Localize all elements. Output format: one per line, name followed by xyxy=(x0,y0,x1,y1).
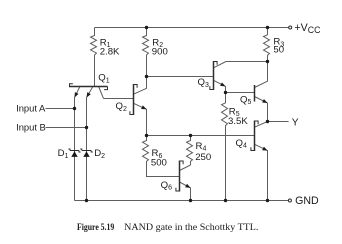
svg-text:Input A: Input A xyxy=(16,103,46,114)
transistor Q4 base bar xyxy=(254,121,256,152)
svg-text:D1: D1 xyxy=(58,148,69,160)
junction dot input B xyxy=(85,126,88,129)
svg-text:R4: R4 xyxy=(196,141,207,153)
transistor Q1 emitter 2 xyxy=(87,87,93,98)
diode D2 anode triangle xyxy=(83,151,89,157)
junction dot Q6 emitter ground xyxy=(189,199,192,202)
transistor Q3 Schottky hook top xyxy=(214,62,218,65)
arrow Q6 emitter xyxy=(185,184,190,188)
svg-text:Y: Y xyxy=(292,117,299,128)
transistor Q5 base bar xyxy=(254,85,256,102)
junction dot R5 ground xyxy=(224,199,227,202)
terminal circle GND xyxy=(288,199,291,202)
svg-text:3.5K: 3.5K xyxy=(228,116,248,127)
wire Q3 collector to R3 node xyxy=(226,61,268,63)
terminal circle +VCC xyxy=(289,26,292,29)
svg-text:D2: D2 xyxy=(94,148,105,160)
wire GND bottom rail xyxy=(75,200,289,202)
transistor Q6 Schottky hook bottom xyxy=(176,188,180,191)
transistor Q6 collector xyxy=(180,165,191,171)
svg-text:Q4: Q4 xyxy=(236,138,247,150)
resistor R5 xyxy=(222,93,228,201)
transistor Q6 emitter xyxy=(180,182,191,201)
svg-text:Q2: Q2 xyxy=(116,101,127,113)
diode D1 Schottky cathode bar xyxy=(68,149,80,152)
svg-text:500: 500 xyxy=(151,158,167,169)
resistor R6 xyxy=(143,136,180,177)
transistor Q2 Schottky hook bottom xyxy=(130,111,134,114)
svg-text:2.8K: 2.8K xyxy=(100,47,120,58)
junction dot R3 top rail xyxy=(266,26,269,29)
transistor Q2 collector xyxy=(134,77,147,95)
arrow Q2 emitter xyxy=(141,105,146,109)
svg-text:Q1: Q1 xyxy=(98,73,109,85)
transistor Q2 base bar xyxy=(133,84,135,115)
arrow Q3 emitter xyxy=(220,82,225,86)
wire input vertical 1 to D1 and ground xyxy=(74,98,76,201)
junction dot Q2 collector node xyxy=(145,75,148,78)
transistor Q3 Schottky hook bottom xyxy=(210,86,214,89)
junction dot R2 top rail xyxy=(145,26,148,29)
transistor Q1 Schottky hook left xyxy=(70,84,73,87)
wire input A xyxy=(46,108,75,110)
junction dot D2 ground xyxy=(85,199,88,202)
transistor Q1 emitter 1 xyxy=(75,87,80,98)
svg-text:Q5: Q5 xyxy=(240,94,251,106)
transistor Q5 emitter xyxy=(255,97,268,122)
junction dot input A xyxy=(73,107,76,110)
junction dot Q2 emitter node xyxy=(145,134,148,137)
svg-text:+VCC: +VCC xyxy=(295,22,322,35)
transistor Q4 collector xyxy=(255,122,268,128)
wire Q2 emitter node to Q4 base xyxy=(147,135,255,137)
wire Q3 emitter node to Q5 base xyxy=(226,92,255,94)
transistor Q4 Schottky hook bottom xyxy=(251,147,255,150)
resistor R2 xyxy=(143,28,149,77)
resistor R3 xyxy=(264,28,270,62)
junction dot Q3 emitter node xyxy=(224,91,227,94)
transistor Q1 base bar xyxy=(69,86,108,88)
junction dot output Y node xyxy=(266,120,269,123)
svg-text:50: 50 xyxy=(273,45,284,56)
arrow Q4 emitter xyxy=(262,147,267,151)
junction dot Q4 emitter ground xyxy=(266,199,269,202)
diode D2 Schottky cathode bar xyxy=(80,149,93,152)
transistor Q4 Schottky hook top xyxy=(255,121,259,124)
wire Q1 collector to Q2 base xyxy=(104,98,134,100)
transistor Q1 collector xyxy=(99,87,104,99)
transistor Q1 Schottky hook right xyxy=(104,87,107,90)
wire input vertical 2 to D2 and ground xyxy=(86,98,88,201)
wire output Y xyxy=(268,121,289,123)
transistor Q6 Schottky hook top xyxy=(180,161,184,164)
transistor Q5 collector xyxy=(255,62,268,88)
transistor Q3 emitter xyxy=(214,80,226,92)
resistor R4 xyxy=(187,136,193,166)
junction dot R4 top node xyxy=(189,134,192,137)
svg-text:NAND gate in the Schottky TTL.: NAND gate in the Schottky TTL. xyxy=(124,222,258,233)
svg-text:Q3: Q3 xyxy=(198,77,209,89)
svg-text:Input B: Input B xyxy=(16,121,46,132)
transistor Q3 collector xyxy=(214,62,227,68)
transistor Q2 emitter xyxy=(134,103,147,135)
wire input B xyxy=(46,127,87,129)
svg-text:Figure 5.19: Figure 5.19 xyxy=(77,222,114,233)
resistor R1 xyxy=(91,28,97,87)
wire Q2 collector to Q3 base xyxy=(147,76,214,78)
transistor Q4 emitter xyxy=(255,144,268,200)
svg-text:Q6: Q6 xyxy=(161,180,172,192)
svg-text:250: 250 xyxy=(195,152,211,163)
diode D1 anode triangle xyxy=(71,151,77,157)
arrow Q1 emitter 1 xyxy=(75,92,79,97)
wire VCC top rail xyxy=(95,27,289,29)
transistor Q6 base bar xyxy=(179,161,181,192)
svg-text:900: 900 xyxy=(152,47,168,58)
junction dot R3 bottom node xyxy=(266,60,269,63)
arrow Q1 emitter 2 xyxy=(87,92,91,97)
transistor Q2 Schottky hook top xyxy=(134,85,138,88)
svg-text:GND: GND xyxy=(295,195,319,207)
transistor Q3 base bar xyxy=(213,61,215,90)
arrow Q5 emitter xyxy=(262,99,267,103)
